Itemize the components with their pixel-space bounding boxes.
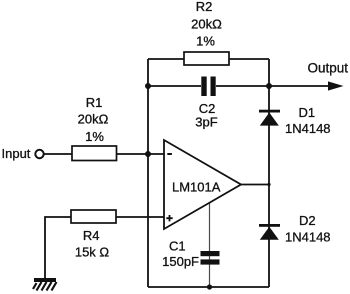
input terminal: [35, 150, 43, 158]
svg-text:3pF: 3pF: [195, 115, 217, 130]
svg-text:R2: R2: [196, 0, 213, 14]
svg-text:D1: D1: [299, 105, 316, 120]
svg-text:Output: Output: [307, 61, 348, 76]
op-amp U1 LM101A: [164, 140, 241, 229]
svg-text:C1: C1: [169, 239, 186, 254]
wire bottom return: [148, 286, 269, 288]
pin plus non-inverting input: [166, 215, 172, 221]
wire top feedback line: [148, 58, 269, 60]
svg-text:1%: 1%: [196, 34, 215, 49]
svg-text:1N4148: 1N4148: [285, 230, 331, 245]
svg-text:1N4148: 1N4148: [285, 121, 331, 136]
wire input to R1: [44, 153, 72, 155]
wire R4 to non-inverting input: [116, 216, 164, 218]
ground: [33, 280, 57, 291]
wire right vertical (diode string): [268, 59, 270, 287]
node junction summing point at inverting input: [145, 151, 151, 157]
node junction C1 / bottom wire: [207, 284, 212, 289]
svg-text:R4: R4: [83, 228, 100, 243]
node junction op-amp output / diode string: [267, 183, 270, 186]
resistor R1: [72, 146, 117, 161]
wire R1 to inverting input: [117, 153, 165, 155]
svg-text:20kΩ: 20kΩ: [78, 112, 109, 127]
resistor R4: [71, 210, 116, 223]
svg-text:R1: R1: [86, 95, 103, 110]
svg-text:1%: 1%: [85, 129, 104, 144]
output arrow: [328, 81, 344, 90]
node junction feedback-left / C2 line: [145, 83, 151, 89]
svg-text:150pF: 150pF: [162, 254, 199, 269]
svg-text:D2: D2: [299, 213, 316, 228]
diode D2: [259, 224, 280, 240]
diode D1: [259, 110, 280, 126]
wire R4 left to ground: [45, 217, 71, 278]
svg-text:Input: Input: [2, 146, 31, 161]
pin minus inverting input: [167, 153, 172, 155]
wire left vertical (feedback to summing node and bottom): [147, 59, 149, 287]
svg-text:15k Ω: 15k Ω: [75, 244, 110, 259]
wire C2 / output line: [148, 85, 340, 87]
wire op-amp output: [241, 184, 269, 186]
svg-text:20kΩ: 20kΩ: [191, 17, 222, 32]
node junction output line / diode string: [266, 83, 272, 89]
wire C1 branch from op-amp to bottom: [209, 203, 211, 287]
resistor R2: [184, 52, 229, 65]
capacitor C2: [201, 77, 215, 97]
capacitor C1: [201, 251, 220, 265]
svg-text:LM101A: LM101A: [172, 180, 221, 195]
